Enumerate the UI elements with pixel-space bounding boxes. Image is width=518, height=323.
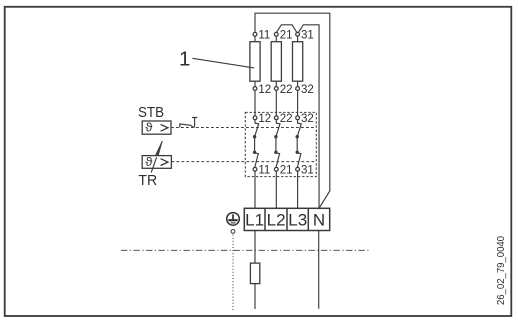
terminal 22 bbox=[274, 84, 292, 96]
wire terminal N to supply N bbox=[318, 231, 320, 309]
wire element 1 bottom to contact block bbox=[254, 90, 256, 116]
heating element 1 bbox=[250, 36, 260, 86]
TR adjustment arrow bbox=[151, 141, 162, 173]
wire element 3 bottom to contact block bbox=[297, 90, 299, 116]
svg-text:L3: L3 bbox=[288, 211, 307, 230]
svg-text:11: 11 bbox=[258, 30, 270, 42]
wire contact K6 to terminal L3 bbox=[297, 171, 299, 208]
svg-text:21: 21 bbox=[280, 165, 293, 177]
wire K2 mid link bbox=[275, 137, 277, 153]
TR label bbox=[138, 173, 157, 189]
STB linkage line (dashed) bbox=[171, 127, 316, 129]
terminal 32 bbox=[296, 84, 314, 96]
contact K1 (STB pole 1, NC) bbox=[253, 120, 259, 139]
terminal L1 label bbox=[245, 211, 264, 230]
STB thermostat contact symbol bbox=[142, 121, 171, 135]
wire contact K4 to terminal L1 bbox=[254, 171, 256, 208]
svg-text:31: 31 bbox=[301, 165, 314, 177]
svg-text:STB: STB bbox=[138, 105, 164, 121]
earth terminal bbox=[231, 230, 235, 234]
terminal 12 bbox=[253, 84, 271, 96]
svg-text:22: 22 bbox=[280, 84, 293, 96]
svg-text:21: 21 bbox=[280, 30, 293, 42]
wire terminal L1 to fuse bbox=[254, 231, 256, 264]
wire K1 mid link bbox=[254, 137, 256, 153]
TR linkage line (dashed) bbox=[171, 161, 316, 163]
contact K6 (TR pole 3, NC) bbox=[296, 151, 301, 168]
wire K3 mid link bbox=[296, 137, 298, 153]
terminal N label bbox=[313, 211, 325, 230]
contact K3 (STB pole 3, NC) bbox=[296, 120, 302, 139]
svg-text:12: 12 bbox=[258, 113, 271, 125]
callout 1 bbox=[179, 48, 254, 71]
TR thermostat contact symbol bbox=[142, 156, 171, 169]
wire net N star-point: terminal 11 up and across to right drop bbox=[255, 13, 330, 208]
wire bridge: terminal 21 to terminal 31 bbox=[276, 25, 297, 33]
svg-text:26_02_79_0040: 26_02_79_0040 bbox=[496, 236, 507, 305]
wire contact K5 to terminal L2 bbox=[275, 171, 277, 208]
svg-text:L2: L2 bbox=[267, 211, 286, 230]
drawing number 26_02_79_0040 bbox=[496, 236, 507, 305]
terminal block X1 bbox=[244, 208, 329, 230]
contact K1 terminal 12 bbox=[253, 113, 271, 125]
wire element 2 bottom to contact block bbox=[275, 90, 277, 116]
svg-text:32: 32 bbox=[301, 113, 314, 125]
svg-text:N: N bbox=[313, 211, 325, 230]
terminal L3 label bbox=[288, 211, 307, 230]
terminal 31 bbox=[296, 30, 314, 42]
wire: terminal 31 to N terminal drop bbox=[298, 25, 319, 209]
fuse F1 bbox=[250, 263, 259, 284]
svg-text:11: 11 bbox=[258, 165, 270, 177]
svg-text:ϑ: ϑ bbox=[145, 157, 153, 169]
terminal L2 label bbox=[267, 211, 286, 230]
contact block enclosure (dashed) bbox=[245, 112, 316, 176]
svg-text:1: 1 bbox=[179, 48, 190, 71]
svg-text:31: 31 bbox=[301, 30, 314, 42]
earth conductor (dotted) bbox=[232, 235, 234, 311]
equipment boundary chain line bbox=[121, 249, 371, 251]
STB manual reset button bbox=[180, 118, 198, 128]
svg-text:ϑ: ϑ bbox=[145, 123, 153, 135]
svg-text:32: 32 bbox=[301, 84, 314, 96]
contact K2 terminal 22 bbox=[274, 113, 292, 125]
svg-text:L1: L1 bbox=[245, 211, 264, 230]
contact K5 terminal 21 bbox=[274, 165, 292, 177]
svg-text:12: 12 bbox=[258, 84, 271, 96]
terminal 11 bbox=[253, 30, 270, 42]
svg-text:TR: TR bbox=[138, 173, 157, 189]
contact K2 (STB pole 2, NC) bbox=[274, 120, 280, 139]
terminal 21 bbox=[274, 30, 292, 42]
contact K4 terminal 11 bbox=[253, 165, 270, 177]
STB label bbox=[138, 105, 164, 121]
heating element 3 bbox=[293, 36, 303, 86]
contact K6 terminal 31 bbox=[296, 165, 314, 177]
svg-text:22: 22 bbox=[280, 113, 293, 125]
contact K5 (TR pole 2, NC) bbox=[274, 151, 279, 168]
wire fuse to supply L bbox=[254, 284, 256, 309]
heating element 2 bbox=[271, 36, 281, 86]
contact K4 (TR pole 1, NC) bbox=[253, 151, 258, 168]
protective earth symbol bbox=[227, 213, 240, 226]
contact K3 terminal 32 bbox=[296, 113, 314, 125]
